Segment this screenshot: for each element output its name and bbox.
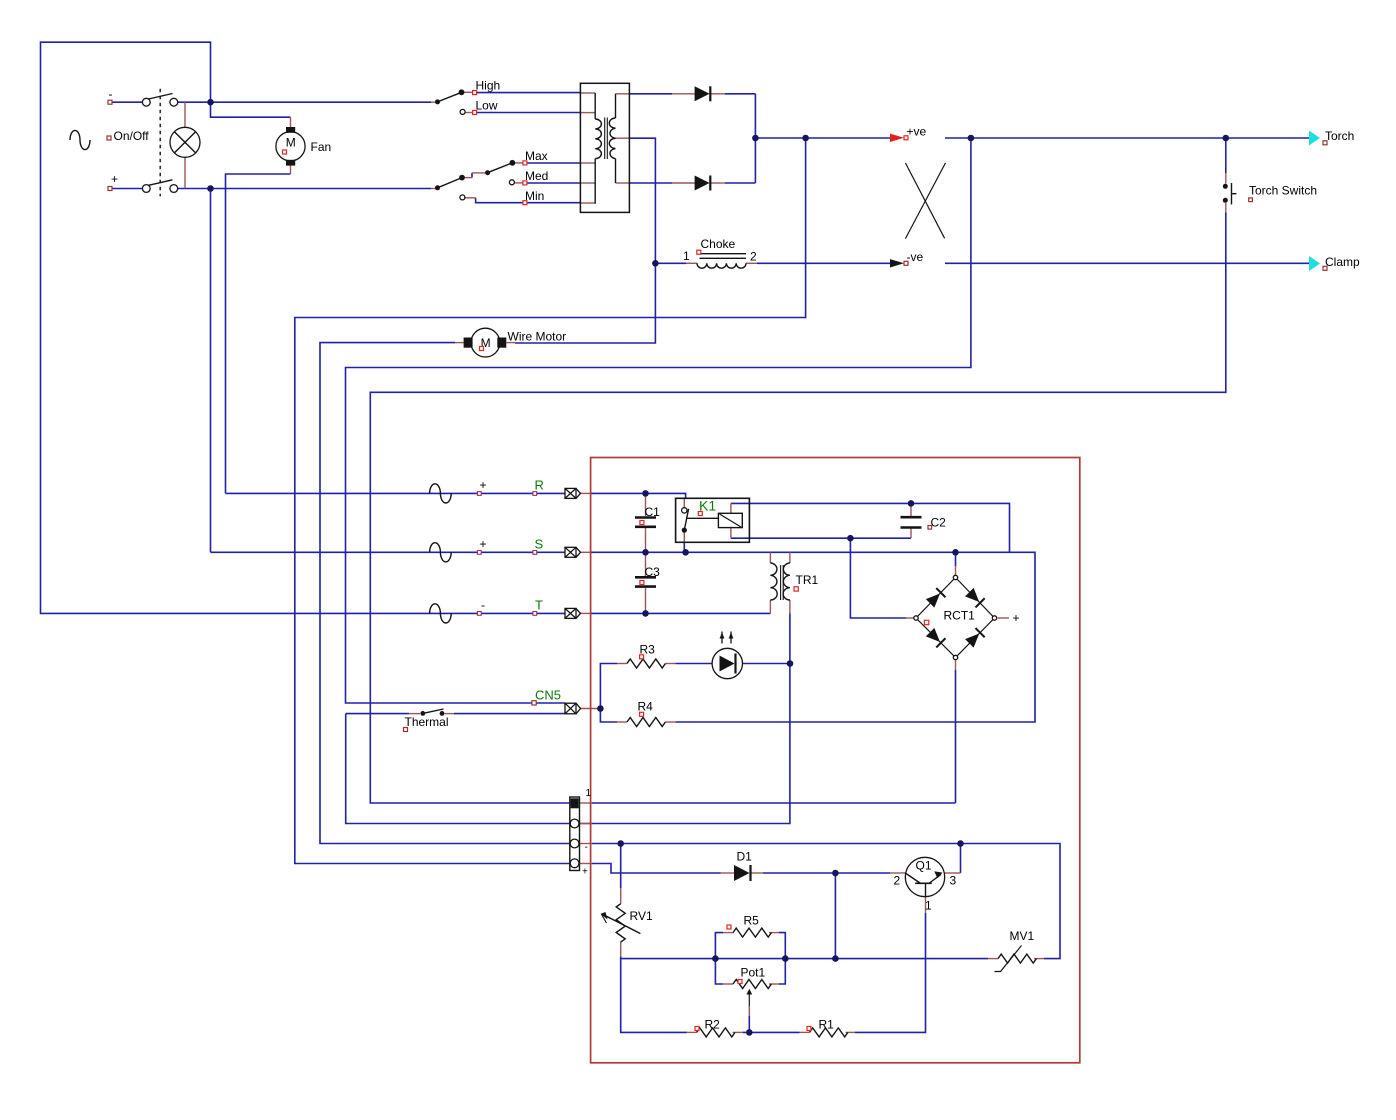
svg-text:C1: C1 <box>645 505 661 519</box>
svg-text:+: + <box>480 537 487 551</box>
svg-text:+ve: +ve <box>907 125 927 139</box>
svg-text:K1: K1 <box>699 498 716 514</box>
svg-text:Torch: Torch <box>1325 129 1354 143</box>
svg-text:-: - <box>109 87 113 101</box>
svg-text:-ve: -ve <box>907 250 924 264</box>
svg-text:R: R <box>535 478 544 493</box>
svg-text:CN5: CN5 <box>535 688 561 703</box>
svg-text:1: 1 <box>586 788 592 799</box>
svg-text:-: - <box>585 842 588 853</box>
svg-text:R1: R1 <box>819 1018 835 1032</box>
svg-text:Q1: Q1 <box>916 859 932 873</box>
svg-text:T: T <box>535 598 543 613</box>
svg-text:RCT1: RCT1 <box>944 609 976 623</box>
svg-text:1: 1 <box>925 899 932 913</box>
svg-text:RV1: RV1 <box>630 909 653 923</box>
svg-text:+: + <box>582 867 588 878</box>
svg-text:Torch Switch: Torch Switch <box>1249 184 1317 198</box>
svg-text:R3: R3 <box>640 643 656 657</box>
svg-text:R4: R4 <box>638 700 654 714</box>
svg-text:High: High <box>476 79 501 93</box>
svg-text:Wire Motor: Wire Motor <box>508 330 567 344</box>
svg-text:M: M <box>286 136 296 150</box>
svg-text:Choke: Choke <box>701 237 736 251</box>
svg-text:Fan: Fan <box>311 140 332 154</box>
svg-text:C2: C2 <box>931 516 947 530</box>
svg-text:1: 1 <box>683 249 690 263</box>
svg-text:TR1: TR1 <box>796 573 819 587</box>
svg-text:2: 2 <box>894 874 901 888</box>
svg-text:+: + <box>480 478 487 492</box>
svg-text:2: 2 <box>750 249 757 263</box>
svg-text:On/Off: On/Off <box>114 129 150 143</box>
svg-text:Low: Low <box>476 99 498 113</box>
svg-text:Max: Max <box>525 149 548 163</box>
svg-text:R5: R5 <box>744 914 760 928</box>
svg-text:+: + <box>1013 611 1020 625</box>
svg-text:D1: D1 <box>737 850 753 864</box>
svg-text:Med: Med <box>525 169 548 183</box>
svg-text:R2: R2 <box>705 1018 721 1032</box>
svg-text:Pot1: Pot1 <box>741 966 766 980</box>
svg-text:Clamp: Clamp <box>1325 255 1360 269</box>
svg-text:+: + <box>111 172 118 186</box>
svg-text:3: 3 <box>950 874 957 888</box>
svg-text:S: S <box>535 537 544 552</box>
svg-text:MV1: MV1 <box>1010 929 1035 943</box>
svg-text:Thermal: Thermal <box>405 715 449 729</box>
svg-text:C3: C3 <box>645 565 661 579</box>
svg-text:Min: Min <box>525 189 544 203</box>
svg-text:-: - <box>481 598 485 612</box>
